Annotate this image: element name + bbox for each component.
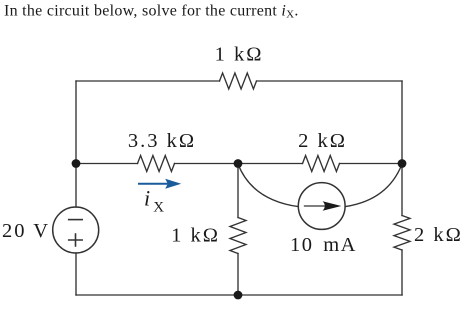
resistor R2 3.3 kOhm (middle horizontal) [138, 156, 175, 172]
wire bottom side [76, 294, 402, 296]
svg-text:2 kΩ: 2 kΩ [298, 130, 347, 152]
wire middle segment node B to R3 [238, 163, 303, 165]
title text [4, 3, 299, 21]
wire left rail upper [75, 81, 77, 207]
label: ix (blue) [144, 186, 164, 216]
node C (right junction) [398, 159, 407, 168]
wire middle segment R2 to node B [175, 163, 239, 165]
wire right rail lower [401, 250, 403, 295]
wire left rail lower [75, 253, 77, 295]
label: 1 kOhm value of R4 [171, 225, 220, 247]
resistor R1 1 kOhm (top horizontal) [220, 73, 257, 89]
node B (middle junction) [234, 159, 243, 168]
resistor R3 2 kOhm (horizontal) [303, 156, 340, 172]
resistor R4 1 kOhm (middle vertical) [230, 218, 246, 254]
wire middle rail lower [237, 254, 239, 296]
wire right rail upper [401, 81, 403, 164]
label: 1 kOhm value of R1 [215, 44, 264, 66]
node A (left, 20V top to 3.3k) [72, 159, 81, 168]
voltage source V1 [53, 207, 99, 253]
svg-text:2 kΩ: 2 kΩ [414, 224, 463, 246]
label: 2 kOhm value of R3 [298, 130, 347, 152]
wire curved node B to current source [238, 164, 298, 207]
svg-text:20 V: 20 V [2, 220, 50, 242]
label: 2 kOhm value of R5 [414, 224, 463, 246]
wire right rail node C to R5 [401, 164, 403, 216]
svg-text:1 kΩ: 1 kΩ [171, 225, 220, 247]
svg-text:3.3 kΩ: 3.3 kΩ [128, 130, 196, 152]
label: 3.3 kOhm value of R2 [128, 130, 196, 152]
label: 10 mA value of I1 [290, 234, 357, 256]
node D (bottom junction) [234, 291, 243, 300]
label: 20 V value of V1 [2, 220, 50, 242]
wire middle-left segment [76, 163, 138, 165]
wire curved current source to node C [345, 164, 402, 207]
current source I1 10 mA [298, 183, 345, 230]
svg-text:1 kΩ: 1 kΩ [215, 44, 264, 66]
wire middle rail node B to R4 [237, 164, 239, 218]
svg-text:10mA: 10mA [290, 234, 357, 256]
wire top-left segment [76, 80, 220, 82]
wire middle segment R3 to node C [340, 163, 403, 165]
svg-text:In the circuit below, solve fo: In the circuit below, solve for the curr… [4, 3, 299, 21]
wire top-right segment [257, 80, 403, 82]
current arrow ix (blue) [138, 179, 181, 189]
resistor R5 2 kOhm (right vertical) [394, 216, 410, 251]
